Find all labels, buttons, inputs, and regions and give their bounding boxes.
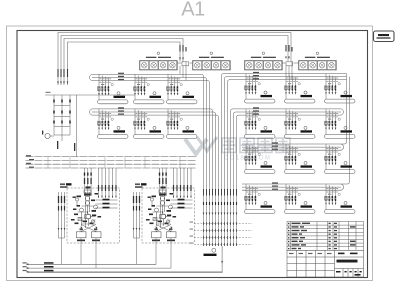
equipment schedule text (288, 223, 356, 250)
luminaire panel AL-c (245, 61, 283, 71)
ATS switchgear unit LDC-1 (58, 168, 120, 268)
circuit number circle AL-b (210, 52, 213, 55)
distribution panel feeder group L2-4 1-AL4 (97, 109, 128, 138)
distribution panel feeder group R4-18 1-AL18 (324, 184, 355, 213)
label above panel AL-a (146, 57, 171, 58)
luminaire panel AL-b (193, 61, 231, 71)
distribution panel feeder group R3-14 1-AL14 (284, 144, 315, 173)
wire riser WL2 from main riser to top trunk (61, 36, 288, 86)
bus row R4 (242, 184, 343, 190)
riser bus label (46, 92, 51, 93)
outgoing feeder stub 1 (23, 262, 157, 265)
riser lower labels (57, 141, 75, 151)
junction link between AL-c and AL-d (282, 62, 298, 66)
LV bus labels (26, 155, 34, 168)
cross grid line labels (190, 222, 194, 244)
distribution cross grid (194, 224, 252, 245)
ATS switchgear unit LDC-2 (133, 168, 195, 268)
drop wire labels at AB junction (179, 45, 186, 52)
bus row R1 descending to riser bundle (222, 74, 347, 216)
cross grid drops (204, 215, 237, 246)
riser feed down to LV bus (62, 95, 77, 157)
distribution panel feeder group L2-5 1-AL5 (133, 109, 164, 138)
outgoing earth arrow (221, 261, 223, 264)
circuit number circle AL-c (262, 52, 265, 55)
drop wires CD junction to bus R1 (286, 61, 292, 80)
distribution panel feeder group L2-6 1-AL6 (166, 109, 197, 138)
bus labels row L2 (118, 107, 124, 114)
distribution panel feeder group R1-8 1-AL8 (284, 74, 315, 103)
distribution panel feeder group L1-2 1-AL2 (133, 75, 164, 104)
watermark text (222, 138, 290, 153)
riser junction bus (45, 94, 135, 96)
circuit number circle AL-d (316, 52, 319, 55)
equipment schedule table (287, 222, 364, 251)
label above panel AL-d (305, 57, 330, 58)
spare circuit circle (204, 248, 217, 256)
bundle arrows (203, 213, 238, 216)
svg-text:A1: A1 (181, 0, 205, 21)
bundle wire labels (203, 189, 237, 196)
riser wire arrows (57, 82, 68, 85)
distribution panel feeder group L1-3 1-AL3 (166, 75, 197, 104)
wire riser WL4 from main riser to top trunk (68, 42, 181, 85)
distribution panel feeder group R4-17 1-AL17 (284, 184, 315, 213)
LV bus ties (48, 157, 180, 168)
riser wire labels (57, 69, 68, 77)
bus row L2 descending to riser bundle (90, 109, 219, 215)
title block texts (336, 253, 362, 276)
distribution panel feeder group R1-7 1-AL7 (244, 74, 275, 103)
riser breakers (53, 100, 71, 124)
label above panel AL-c (251, 57, 276, 58)
bus row L1 descending to riser bundle (90, 74, 210, 215)
cross grid junctions (203, 222, 237, 246)
luminaire panel AL-d (299, 61, 337, 71)
bus labels row R3 (272, 142, 278, 149)
title block (287, 250, 364, 277)
bundle breakers (203, 202, 237, 205)
junction link between AL-a and AL-b (177, 62, 192, 66)
label above panel AL-b (199, 57, 224, 58)
outgoing earth wire (28, 246, 222, 273)
outgoing feeder stub 3 (23, 270, 223, 273)
stamp box top-right (374, 31, 395, 42)
drop wire arrows at CD junction (285, 57, 290, 60)
bus labels row R1 (253, 72, 259, 79)
distribution panel feeder group R2-10 1-AL10 (244, 109, 275, 138)
riser breaker column wires (54, 95, 70, 135)
drop wires AB junction to bus L1 (180, 62, 186, 81)
distribution panel feeder group R3-15 1-AL15 (324, 144, 355, 173)
bus labels row R4 (272, 182, 278, 189)
inner border frame (17, 31, 368, 278)
wire riser WL3 from main riser to top trunk (64, 39, 183, 86)
circuit number circle AL-a (157, 52, 160, 55)
watermark logo (185, 137, 217, 154)
distribution panel feeder group R3-13 1-AL13 (244, 144, 275, 173)
distribution panel feeder group L1-1 1-AL1 (97, 75, 128, 104)
bus row R3 (242, 144, 343, 150)
bus row R2 descending to riser bundle (231, 109, 344, 215)
distribution panel feeder group R1-9 1-AL9 (324, 74, 355, 103)
revision grid marks (289, 253, 332, 254)
drop wire labels at CD junction (285, 45, 292, 52)
distribution panel feeder group R4-16 1-AL16 (244, 184, 275, 213)
right side feeder risers (341, 74, 350, 185)
wire riser WL1 from main riser to top trunk (58, 33, 291, 86)
distribution panel feeder group R2-11 1-AL11 (284, 109, 315, 138)
bus labels row L1 (118, 73, 124, 80)
outgoing feeder stub 2 (23, 266, 172, 269)
kWh meter circle (42, 131, 54, 139)
distribution panel feeder group R2-12 1-AL12 (324, 109, 355, 138)
LV main bus (26, 157, 197, 168)
drop wire arrows at AB junction (179, 58, 184, 61)
bus labels row R2 (253, 107, 259, 114)
luminaire panel AL-a (140, 61, 178, 71)
